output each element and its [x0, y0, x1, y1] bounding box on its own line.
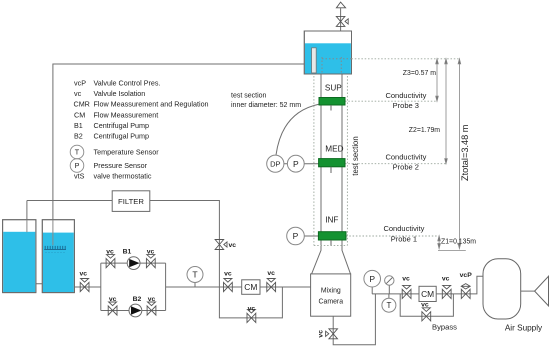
svg-text:vc: vc [267, 270, 275, 277]
svg-text:Z1=0,135m: Z1=0,135m [441, 238, 476, 245]
svg-text:vcP: vcP [74, 79, 86, 88]
svg-text:B2: B2 [133, 296, 142, 303]
svg-text:P: P [293, 159, 299, 169]
svg-text:vc: vc [74, 89, 82, 98]
svg-text:B1: B1 [123, 248, 132, 255]
svg-text:Pressure Sensor: Pressure Sensor [94, 161, 148, 170]
svg-text:B1: B1 [74, 121, 83, 130]
svg-text:vc: vc [148, 296, 156, 303]
svg-text:Probe 1: Probe 1 [391, 234, 417, 243]
svg-text:Ztotal=3.48 m: Ztotal=3.48 m [460, 124, 470, 181]
svg-text:SUP: SUP [325, 83, 342, 92]
svg-text:Mixing: Mixing [321, 287, 341, 294]
svg-text:Conductivity: Conductivity [385, 91, 426, 100]
svg-text:vc: vc [248, 306, 256, 313]
svg-text:vc: vc [318, 330, 325, 338]
svg-text:MED: MED [325, 144, 343, 153]
svg-text:CM: CM [244, 282, 257, 292]
svg-text:vc: vc [442, 276, 450, 283]
svg-text:CM: CM [74, 111, 85, 120]
svg-text:T: T [75, 148, 80, 157]
svg-text:vc: vc [421, 301, 429, 308]
svg-text:vc: vc [109, 296, 117, 303]
svg-text:T: T [386, 301, 391, 310]
svg-text:inner diameter: 52 mm: inner diameter: 52 mm [231, 102, 301, 109]
svg-text:B2: B2 [74, 132, 83, 141]
svg-text:vcP: vcP [460, 272, 473, 279]
svg-text:Valvule Control Pres.: Valvule Control Pres. [94, 79, 161, 88]
svg-text:Conductivity: Conductivity [383, 224, 424, 233]
svg-text:vc: vc [402, 276, 410, 283]
svg-text:Flow Meassurement and Regulati: Flow Meassurement and Regulation [94, 100, 209, 109]
svg-text:Temperature Sensor: Temperature Sensor [94, 148, 160, 157]
svg-text:DP: DP [270, 160, 280, 169]
svg-text:vtS: vtS [74, 172, 85, 181]
svg-text:Camera: Camera [319, 298, 344, 305]
svg-text:Air Supply: Air Supply [505, 324, 543, 333]
svg-text:Valvule Isolation: Valvule Isolation [94, 89, 146, 98]
svg-text:Probe 3: Probe 3 [393, 101, 419, 110]
svg-text:P: P [293, 231, 299, 241]
svg-text:vc: vc [106, 248, 114, 255]
svg-text:Conductivity: Conductivity [385, 152, 426, 161]
svg-text:CMR: CMR [74, 100, 90, 109]
svg-text:test section: test section [351, 136, 360, 175]
svg-text:P: P [369, 274, 375, 284]
svg-text:P: P [75, 161, 80, 170]
svg-text:INF: INF [325, 216, 338, 225]
svg-text:vc: vc [147, 248, 155, 255]
svg-text:T: T [192, 270, 198, 280]
svg-text:vc: vc [80, 271, 88, 278]
svg-text:valve thermostatic: valve thermostatic [94, 172, 152, 181]
svg-text:vc: vc [224, 271, 232, 278]
svg-text:Z2=1.79m: Z2=1.79m [409, 127, 440, 134]
svg-text:Centrifugal Pump: Centrifugal Pump [94, 121, 150, 130]
svg-text:test section: test section [231, 93, 267, 100]
svg-text:Centrifugal Pump: Centrifugal Pump [94, 132, 150, 141]
svg-text:Probe 2: Probe 2 [393, 163, 419, 172]
svg-text:FILTER: FILTER [118, 197, 144, 206]
svg-text:Bypass: Bypass [432, 323, 457, 332]
svg-text:Flow Meassurement: Flow Meassurement [94, 111, 159, 120]
svg-text:Z3=0.57 m: Z3=0.57 m [403, 70, 436, 77]
svg-text:CM: CM [421, 289, 434, 299]
svg-text:vc: vc [229, 242, 237, 249]
